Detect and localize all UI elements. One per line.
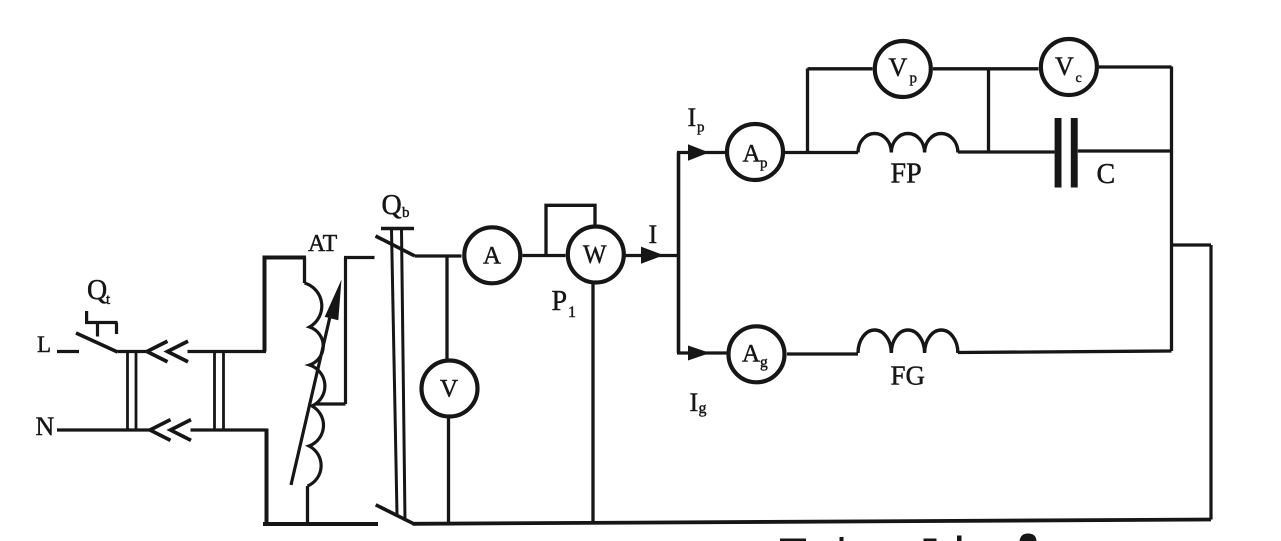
svg-text:p: p — [910, 71, 918, 87]
svg-text:A: A — [483, 243, 501, 270]
svg-text:I: I — [688, 103, 697, 132]
svg-text:p: p — [760, 156, 768, 172]
svg-text:W: W — [583, 240, 607, 269]
svg-text:P: P — [552, 286, 568, 317]
svg-text:V: V — [889, 53, 908, 82]
svg-text:Q: Q — [382, 190, 402, 221]
svg-text:Q: Q — [87, 275, 107, 306]
svg-text:V: V — [1055, 52, 1074, 81]
svg-text:C: C — [1097, 159, 1116, 190]
svg-text:p: p — [697, 120, 705, 136]
svg-text:I: I — [649, 220, 658, 249]
svg-text:t: t — [106, 292, 111, 308]
svg-text:L: L — [37, 332, 51, 357]
svg-text:g: g — [699, 400, 707, 417]
svg-text:I: I — [690, 388, 699, 417]
svg-text:A: A — [742, 341, 760, 368]
svg-text:FG: FG — [891, 361, 926, 391]
svg-text:FP: FP — [891, 159, 922, 190]
svg-text:1: 1 — [568, 304, 576, 321]
svg-text:N: N — [36, 412, 55, 441]
svg-text:A: A — [743, 141, 761, 168]
svg-text:AT: AT — [308, 231, 338, 257]
svg-text:c: c — [1076, 71, 1082, 86]
svg-text:b: b — [402, 205, 410, 221]
svg-text:V: V — [440, 376, 458, 403]
svg-text:g: g — [760, 354, 768, 371]
